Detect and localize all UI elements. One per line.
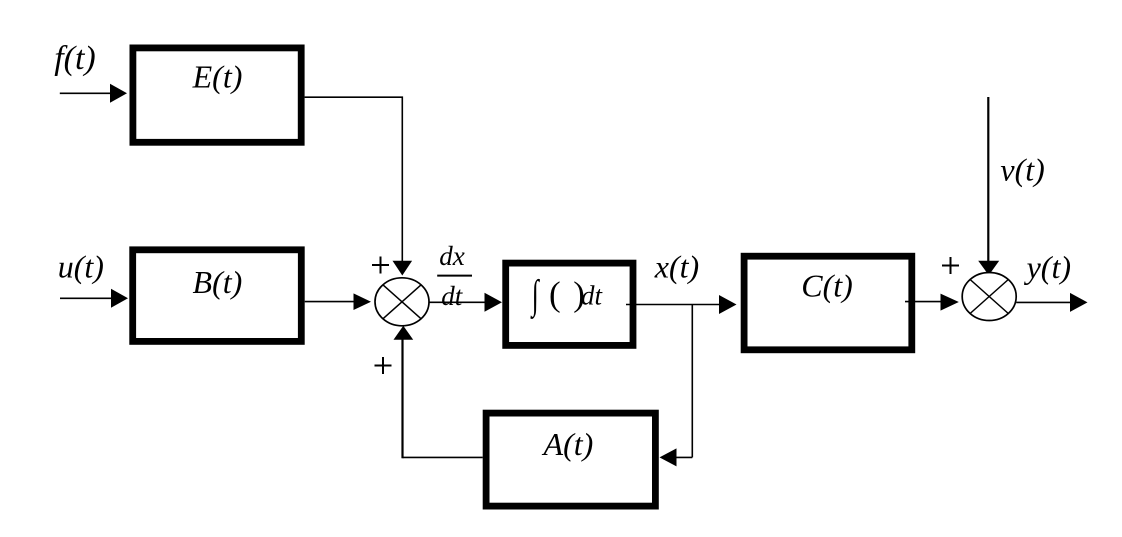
svg-text:x(t): x(t) [654,249,699,285]
label v(t) [1000,152,1044,188]
block B(t) [133,250,302,342]
svg-text:y(t): y(t) [1024,249,1071,285]
wire E(t) output to summing junction S1 [305,97,413,275]
svg-text:f(t): f(t) [54,40,96,77]
label y(t) [1024,249,1071,285]
block integrator [506,263,633,345]
svg-text:(: ( [549,275,561,314]
block A(t) [486,413,655,506]
wire B(t) output to S1 [305,293,371,310]
label f(t) [54,40,96,77]
svg-text:E(t): E(t) [192,58,243,94]
block C(t) [744,256,912,350]
wire f(t) input arrow [60,84,127,103]
wire u(t) input arrow [60,289,128,308]
wire feedback from junction down to A(t) input [660,305,693,467]
block E(t) [133,48,301,142]
wire S1 output to integrator [430,293,503,312]
svg-text:A(t): A(t) [542,426,594,462]
svg-text:u(t): u(t) [58,248,104,284]
svg-text:dt: dt [581,281,604,311]
svg-text:B(t): B(t) [193,264,243,300]
svg-text:∫: ∫ [530,273,540,320]
wire C(t) output to summing junction S2 [905,294,959,311]
summing junction S2 [962,273,1016,321]
label dx/dt fraction [437,241,472,311]
svg-text:dt: dt [441,281,464,311]
svg-text:dx: dx [439,241,465,271]
plus sign at S2 top left [942,257,959,274]
svg-text:C(t): C(t) [801,267,853,303]
svg-text:v(t): v(t) [1000,152,1044,188]
plus sign at S1 top left [372,257,389,274]
label u(t) [58,248,104,284]
wire integrator output to C(t) with junction [626,295,737,314]
wire v(t) input down to S2 [978,97,999,275]
summing junction S1 [375,278,429,326]
wire A(t) output to S1 bottom [394,326,483,459]
plus sign at S1 bottom left [375,357,392,374]
wire y(t) output arrow [1016,293,1087,312]
label x(t) [654,249,699,285]
